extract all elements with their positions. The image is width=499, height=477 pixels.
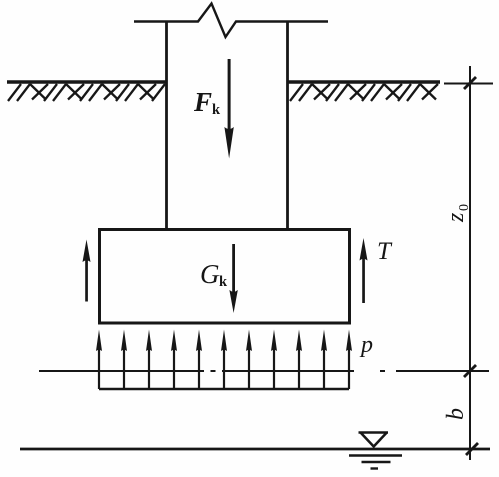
svg-text:k: k	[219, 274, 228, 290]
svg-text:b: b	[443, 408, 469, 420]
pressure arrow 10	[321, 330, 327, 390]
svg-text:F: F	[193, 87, 212, 117]
center dash-dot line	[39, 370, 489, 372]
tick at ground level	[464, 77, 476, 89]
column break line (top horizontal with zigzag)	[134, 4, 328, 38]
pressure arrow 5	[196, 330, 202, 390]
label b (rotated, right dimension)	[443, 408, 469, 420]
pressure arrow 1	[96, 330, 102, 390]
pressure arrow 9	[296, 330, 302, 390]
ground line left	[7, 80, 167, 83]
pressure arrow 7	[246, 330, 252, 390]
wire column right edge	[286, 22, 289, 231]
tick at water level	[466, 443, 478, 455]
svg-text:k: k	[212, 102, 221, 118]
distributed pressure tail line	[99, 388, 349, 391]
svg-text:p: p	[359, 332, 373, 358]
svg-text:T: T	[377, 238, 393, 265]
svg-text:z: z	[443, 212, 469, 223]
uplift friction arrow T left (upward)	[83, 240, 91, 302]
label z0 (rotated, right dimension)	[443, 204, 472, 223]
dimension line vertical (right)	[469, 66, 471, 460]
pressure arrow 6	[221, 330, 227, 390]
tick at center line level	[464, 365, 476, 377]
pressure arrow 11	[346, 330, 352, 390]
pressure arrow 2	[121, 330, 127, 390]
wire column left edge	[165, 22, 168, 231]
ground hatch right	[290, 84, 438, 101]
svg-text:0: 0	[457, 204, 472, 211]
pressure arrow 4	[171, 330, 177, 390]
footing rectangle	[100, 230, 350, 324]
water table triangle symbol	[359, 433, 389, 447]
svg-text:G: G	[200, 259, 220, 289]
pressure arrow 3	[146, 330, 152, 390]
water symbol underline 2	[362, 461, 391, 463]
water symbol underline 1	[349, 454, 402, 457]
extension line at ground level	[444, 83, 493, 85]
pressure arrow 8	[271, 330, 277, 390]
uplift friction arrow T right (upward)	[360, 238, 368, 303]
water line	[20, 448, 490, 451]
ground line right	[288, 80, 441, 83]
force arrow G_k (downward, in footing)	[229, 244, 237, 313]
ground hatch left	[8, 84, 165, 101]
force arrow F_k (downward, in column)	[224, 59, 233, 159]
water symbol underline 3	[371, 467, 379, 469]
